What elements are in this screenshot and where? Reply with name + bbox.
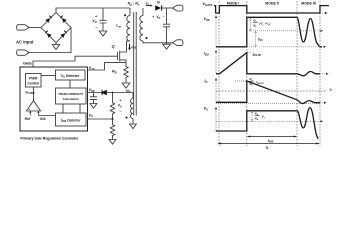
svg-text:E/A: E/A (40, 117, 46, 121)
svg-text:NS: NS (255, 116, 259, 121)
svg-text:TRUECURRENT®: TRUECURRENT® (58, 92, 84, 96)
op-amp EA error amplifier (26, 101, 40, 111)
block tDIS Detector (56, 113, 87, 126)
svg-text:AC Input: AC Input (16, 40, 34, 45)
node junction divider tap (112, 118, 114, 120)
waveform VDS trace (216, 17, 322, 47)
svg-text:VDS: VDS (204, 17, 210, 22)
svg-text:+: + (119, 99, 121, 103)
wire TRUECURRENT to tDIS Detector right (79, 104, 81, 113)
axis IDS (215, 50, 217, 75)
svg-text:ID: ID (205, 79, 208, 84)
dim arrow VIN (255, 31, 257, 47)
wire PWM to Vo Detector (41, 75, 56, 77)
wire gate from controller (33, 56, 117, 67)
block PWM Control (26, 74, 42, 88)
svg-text:Vin: Vin (92, 19, 97, 24)
block TRUECURRENT Calculation (56, 88, 87, 104)
wire source sense VCS (88, 63, 127, 70)
wire DC rail (56, 8, 130, 13)
svg-text:Calculation: Calculation (63, 97, 79, 101)
node dot primary polarity (124, 14, 126, 16)
grid dashed vertical mode I/II (246, 1, 248, 146)
waveform VS trace (216, 108, 318, 139)
axis VS (215, 107, 217, 133)
svg-text:+: + (95, 14, 98, 18)
ground RS (122, 83, 130, 88)
transformer T1 secondary winding (140, 8, 143, 43)
ground RB (109, 140, 116, 145)
svg-text:PWM: PWM (29, 76, 37, 80)
svg-text:Control: Control (27, 81, 39, 85)
ground NA (130, 124, 137, 129)
svg-text:VD: VD (156, 15, 160, 20)
svg-text:RS: RS (112, 70, 117, 75)
wire J1 to bridge left vertex (29, 27, 41, 29)
diode BR1 bottom-left (45, 30, 52, 38)
wire secondary bottom to output (143, 42, 173, 44)
svg-text:NA: NA (126, 89, 131, 94)
svg-text:VA: VA (118, 104, 122, 109)
ref line ID zero (216, 103, 320, 105)
ref line ID peak (235, 80, 246, 82)
wire Vo Detector to TRUECURRENT (69, 80, 71, 88)
resistor RA (110, 93, 114, 120)
capacitor Co (163, 8, 170, 43)
diode BR1 top-right (60, 15, 67, 23)
connector J1 AC terminal upper (17, 25, 29, 30)
transformer T1 auxiliary winding NA (131, 93, 134, 125)
svg-text:MODE II: MODE II (265, 2, 278, 6)
ground output (163, 44, 171, 49)
wire VS to divider tap (88, 118, 113, 120)
dim arrow n(Vo+Vd) (250, 18, 252, 31)
axis arrow VDS right (324, 46, 327, 48)
svg-text:Ns: Ns (253, 23, 257, 28)
wire bridge bottom to ground (55, 43, 57, 45)
svg-text:Io: Io (330, 87, 333, 92)
svg-text:(Vo +Vd): (Vo +Vd) (259, 22, 270, 27)
label Np/Ns(Vo+Vd) (253, 19, 270, 29)
ref line VIN level (247, 30, 323, 32)
grid dashed vertical mode II/III (296, 1, 298, 146)
svg-text:MODE III: MODE III (301, 2, 315, 6)
svg-text:−: − (36, 108, 38, 111)
wire EA input from tDIS detector (37, 111, 55, 116)
waveform VGATE trace (214, 6, 329, 13)
node junction divider top (112, 92, 114, 94)
wire VDD (88, 92, 134, 94)
diode BR1 bottom-right (60, 30, 67, 38)
ref line VS zero (216, 120, 323, 122)
svg-text:Primary Side Regulation Contro: Primary Side Regulation Controller (20, 137, 79, 141)
label Np/Ns IDS,PK (249, 77, 264, 87)
label Vin (92, 14, 98, 29)
ref line VDS zero (247, 46, 320, 48)
node dot secondary polarity (146, 37, 148, 39)
svg-text:Ref: Ref (25, 117, 31, 121)
diode DA auxiliary (101, 90, 107, 95)
svg-text:Lm: Lm (116, 24, 121, 29)
wire VCOMP PWM to op-amp (33, 87, 35, 101)
svg-text:−: − (95, 26, 98, 30)
svg-text:−: − (163, 15, 165, 19)
bridge rectifier BR1 diamond (41, 13, 71, 43)
label VD (152, 15, 165, 20)
ground bridge (52, 45, 60, 50)
svg-text:IDS,PK: IDS,PK (253, 52, 262, 57)
connector J3 output+ (173, 5, 184, 11)
svg-text:MODE I: MODE I (227, 2, 239, 6)
axis VDS (215, 15, 217, 47)
svg-text:tDIS: tDIS (268, 139, 274, 144)
wire Ref input arrow (29, 111, 31, 116)
svg-text:IDS: IDS (204, 51, 209, 56)
svg-text:VS: VS (89, 113, 93, 118)
connector J4 output- (173, 40, 183, 46)
capacitor Cin (100, 8, 107, 31)
controller box U1 (20, 67, 88, 131)
svg-text:IDS,PK: IDS,PK (256, 80, 264, 85)
svg-text:Np : Ns: Np : Ns (128, 1, 140, 6)
ground CDD (90, 104, 97, 109)
svg-text:+: + (152, 15, 154, 19)
svg-text:VGATE: VGATE (203, 2, 213, 7)
svg-text:Vo Detector: Vo Detector (61, 74, 80, 79)
dim arrow tDIS (248, 136, 296, 138)
wire J2 to bridge right vertex (29, 28, 71, 53)
wire diode to output (162, 7, 172, 9)
label IDS with down arrow (128, 44, 136, 50)
axis arrow VGATE right (320, 12, 328, 14)
diode BR1 top-left (45, 15, 52, 23)
svg-text:D: D (157, 1, 160, 5)
svg-text:−: − (120, 110, 122, 114)
axis arrow IDS right (320, 73, 329, 75)
grid dashed vertical period end (319, 1, 321, 146)
resistor RB (110, 119, 114, 140)
connector J2 AC terminal lower (17, 50, 30, 55)
waveform ID trace (216, 81, 320, 104)
axis arrow ID right (320, 102, 327, 104)
transformer T1 primary winding Lm (120, 8, 130, 52)
ground Cin (99, 31, 107, 36)
grid dashed vertical t0 (218, 1, 220, 146)
label VA (118, 99, 122, 114)
svg-text:Vo: Vo (262, 115, 266, 120)
svg-text:VS: VS (204, 106, 208, 111)
ref line Io average (216, 90, 327, 92)
svg-text:tDIS Detector: tDIS Detector (61, 118, 81, 123)
ref line IDS peak (248, 52, 252, 54)
block Vo Detector (56, 70, 86, 80)
transformer T1 core (134, 12, 137, 116)
wire TRUECURRENT to tDIS Detector left (62, 104, 64, 113)
svg-text:VIN: VIN (258, 37, 263, 42)
waveform IDS trace (216, 53, 320, 76)
capacitor CDD (90, 93, 97, 104)
dim arrow NA/NS Vo (251, 111, 253, 122)
svg-text:Q: Q (112, 45, 115, 49)
svg-text:Gate: Gate (23, 61, 33, 66)
svg-text:tS: tS (266, 145, 269, 149)
transistor Q1 MOSFET (117, 51, 126, 64)
axis ID (215, 78, 217, 105)
label NA/NS Vo (254, 112, 265, 122)
diode D output rectifier (155, 5, 162, 10)
resistor RS (124, 64, 128, 80)
dim arrow tS (218, 143, 318, 145)
node dot auxiliary polarity (126, 117, 128, 119)
label ID current (146, 1, 153, 6)
